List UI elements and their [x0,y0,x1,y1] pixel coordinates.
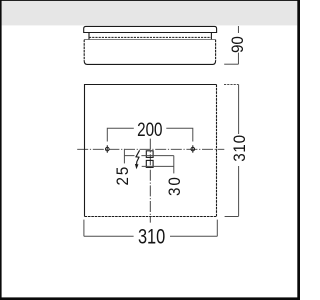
svg-text:310: 310 [232,134,250,161]
svg-text:25: 25 [115,165,133,186]
svg-text:90: 90 [230,36,248,53]
svg-text:310: 310 [138,224,165,247]
svg-text:30: 30 [167,175,185,196]
svg-text:200: 200 [137,118,163,140]
